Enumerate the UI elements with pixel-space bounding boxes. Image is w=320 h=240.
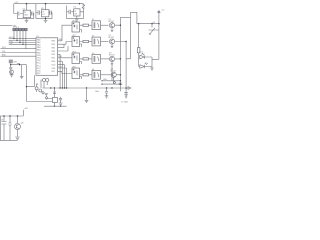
resistor R6: [138, 48, 140, 53]
transistor Q3: [109, 56, 114, 61]
wire q6 cluster: [11, 63, 22, 67]
wire bottom line 2: [44, 105, 67, 107]
wire right left vertical: [126, 12, 130, 59]
resistor R2: [83, 40, 92, 42]
led D3: [139, 57, 152, 68]
label C10 value: [95, 91, 99, 93]
svg-text:K1: K1: [92, 19, 94, 21]
net arrow rail end: [126, 87, 131, 90]
transistor Q1: [109, 23, 114, 28]
capacitor on bus1: [119, 83, 123, 84]
svg-text:AN0: AN0: [2, 54, 6, 57]
svg-text:GN: GN: [74, 13, 77, 15]
capacitor C8: [59, 97, 62, 103]
transistor Q4: [111, 72, 116, 77]
test diamond q4: [113, 81, 115, 84]
regulator U4: [74, 9, 80, 16]
label crystal: [36, 84, 38, 86]
svg-text:+BT: +BT: [24, 108, 29, 110]
label C9: [1, 120, 3, 122]
wire reg3 left branch: [67, 6, 74, 19]
svg-text:OK1: OK1: [72, 20, 76, 22]
transistor Q8: [15, 116, 21, 137]
relay K2: [92, 37, 109, 46]
svg-text:K3: K3: [92, 53, 94, 55]
svg-text:RB0: RB0: [52, 61, 56, 63]
svg-text:C9: C9: [1, 120, 3, 122]
svg-text:OK2: OK2: [72, 35, 76, 37]
wire mosfet feed: [138, 24, 140, 48]
relay K3: [92, 55, 109, 64]
led D2: [139, 53, 147, 59]
ground right: [150, 67, 154, 71]
capacitor C12: [8, 116, 11, 140]
capacitor C5: [69, 10, 71, 14]
svg-text:RB5: RB5: [52, 44, 56, 46]
wire dropper x54.4: [53, 88, 55, 106]
wire bottom rail: [43, 87, 127, 89]
mcu U1: [36, 38, 58, 76]
wire stub bus1 below rail: [119, 88, 121, 91]
svg-text:RA4: RA4: [37, 49, 41, 52]
wire right step: [131, 12, 159, 23]
wire reg2 left branch: [36, 4, 42, 19]
svg-text:RX1: RX1: [2, 47, 6, 49]
wire risers to rail: [60, 54, 66, 88]
capacitor C4: [49, 10, 52, 18]
ground reg1: [25, 20, 29, 22]
wire U2 feed: [26, 4, 28, 11]
svg-text:D2: D2: [141, 51, 143, 53]
transistor Q6 cluster box: [9, 60, 13, 64]
capacitor C2: [31, 12, 34, 19]
svg-text:RB6: RB6: [52, 41, 56, 43]
optocoupler U5: [72, 22, 83, 33]
wire row1 out: [111, 25, 121, 31]
svg-text:Q8: Q8: [21, 122, 24, 124]
svg-text:VDD: VDD: [52, 64, 56, 66]
wire battery rail: [0, 110, 23, 116]
resonator cluster: [35, 84, 42, 92]
wire row3 out: [102, 59, 120, 81]
svg-text:RA2: RA2: [37, 44, 41, 47]
svg-text:RB1: RB1: [59, 56, 63, 58]
wire header leads: [14, 31, 26, 49]
svg-text:1 2 3 4: 1 2 3 4: [13, 27, 20, 29]
relay K1: [92, 21, 109, 30]
wire U3 feed: [45, 4, 47, 10]
crystal circles: [41, 78, 49, 88]
svg-text:MCLR: MCLR: [9, 37, 15, 39]
ground mid: [20, 77, 24, 79]
svg-text:GND: GND: [24, 15, 29, 17]
svg-text:GND: GND: [103, 79, 108, 81]
svg-text:RB3: RB3: [52, 51, 56, 53]
svg-text:RB2: RB2: [52, 54, 56, 56]
wire net stub top left: [0, 25, 12, 27]
ground q6: [10, 74, 14, 77]
svg-text:100n: 100n: [95, 91, 99, 93]
svg-text:Q5: Q5: [153, 22, 156, 24]
label net pins: [59, 39, 108, 81]
capacitor C6 polarized: [9, 68, 12, 71]
svg-text:RB7: RB7: [37, 73, 41, 75]
optocoupler U8: [72, 68, 83, 79]
node rail junctions: [26, 3, 81, 5]
svg-text:TX1: TX1: [2, 51, 5, 53]
svg-text:RA0: RA0: [37, 38, 41, 41]
svg-text:U3: U3: [41, 8, 43, 10]
capacitor C3: [38, 10, 40, 14]
wire battery bottom: [0, 116, 18, 140]
svg-text:RA5: RA5: [37, 51, 41, 54]
resistor R4: [83, 74, 92, 76]
led D2 arrows: [142, 53, 145, 55]
ground rail stub 1: [85, 88, 89, 102]
svg-text:RB6: RB6: [59, 39, 63, 41]
label rail: [15, 2, 19, 4]
capacitor C10: [105, 88, 109, 98]
svg-text:PGC: PGC: [9, 43, 14, 45]
wire vertical bus V+: [119, 17, 121, 88]
svg-text:OK4: OK4: [72, 66, 76, 68]
svg-text:RA1: RA1: [37, 41, 41, 44]
label +BAT: [24, 108, 29, 110]
wire bus top link: [120, 16, 130, 18]
label D2: [141, 51, 143, 53]
wire row2 out: [111, 42, 126, 48]
capacitor on dropper: [53, 92, 56, 93]
mosfet Q5: [149, 24, 159, 35]
svg-text:VSS: VSS: [52, 68, 56, 70]
ground reg2: [44, 20, 48, 22]
transistor Q2: [109, 39, 114, 44]
wire bottom link: [27, 101, 53, 103]
transistor Q7: [10, 70, 14, 74]
ground p2: [45, 94, 49, 96]
svg-text:RC1: RC1: [59, 66, 63, 68]
capacitor C9 polarized: [2, 116, 7, 140]
capacitor C1: [17, 12, 19, 19]
wire step down: [21, 65, 23, 77]
capacitor C11: [124, 93, 128, 98]
wire reg2 bottom: [36, 17, 52, 20]
wire top power rail: [14, 3, 84, 5]
relay K4: [92, 70, 111, 79]
wire riser left: [22, 65, 27, 102]
svg-text:VO: VO: [42, 14, 45, 16]
svg-text:U2: U2: [23, 8, 25, 10]
ground reg3: [75, 19, 79, 21]
power flag +12V: [158, 11, 161, 13]
wire MCU right pins: [58, 41, 72, 72]
connector J1: [13, 28, 27, 30]
wire reg1 bottom: [17, 18, 34, 20]
test diamond p2: [42, 91, 45, 94]
svg-text:U4: U4: [74, 7, 76, 9]
led D3 arrows: [145, 63, 148, 65]
wire risers to opto rows: [62, 25, 72, 73]
wire row4 out: [102, 75, 120, 84]
optocoupler U6: [72, 37, 83, 48]
wire MCU left pins: [1, 39, 37, 57]
wire to right ground: [147, 57, 159, 67]
svg-text:Y1: Y1: [36, 84, 38, 86]
label Q5: [153, 22, 156, 24]
wire right main vertical: [158, 11, 160, 60]
svg-text:OK3: OK3: [72, 51, 76, 53]
optocoupler U7: [72, 53, 83, 64]
svg-text:RB1: RB1: [52, 58, 56, 60]
svg-text:RB4: RB4: [52, 47, 56, 49]
resistor R3: [83, 58, 92, 60]
zener D1: [80, 4, 85, 12]
svg-text:C7 100n: C7 100n: [121, 101, 128, 103]
ground battery: [15, 137, 20, 139]
label Q8: [21, 122, 24, 124]
svg-text:K2: K2: [92, 36, 94, 38]
wire reg3 bottom: [67, 12, 84, 19]
ground c8: [59, 103, 63, 105]
wire vertical bus 2: [125, 42, 127, 95]
node rail dots: [50, 87, 113, 88]
regulator U2: [23, 10, 30, 18]
svg-text:+12: +12: [161, 10, 165, 12]
test diamond 2: [45, 96, 48, 99]
wire mcu bottom drop: [27, 75, 35, 86]
svg-text:K4: K4: [92, 69, 94, 71]
wire reg1 left branch: [14, 4, 23, 14]
jumper box: [53, 97, 58, 102]
svg-text:RD7: RD7: [52, 71, 56, 73]
regulator U3: [42, 10, 49, 17]
resistor R1: [83, 24, 92, 26]
wire diamond link: [47, 98, 53, 101]
svg-text:RA3: RA3: [37, 46, 41, 49]
